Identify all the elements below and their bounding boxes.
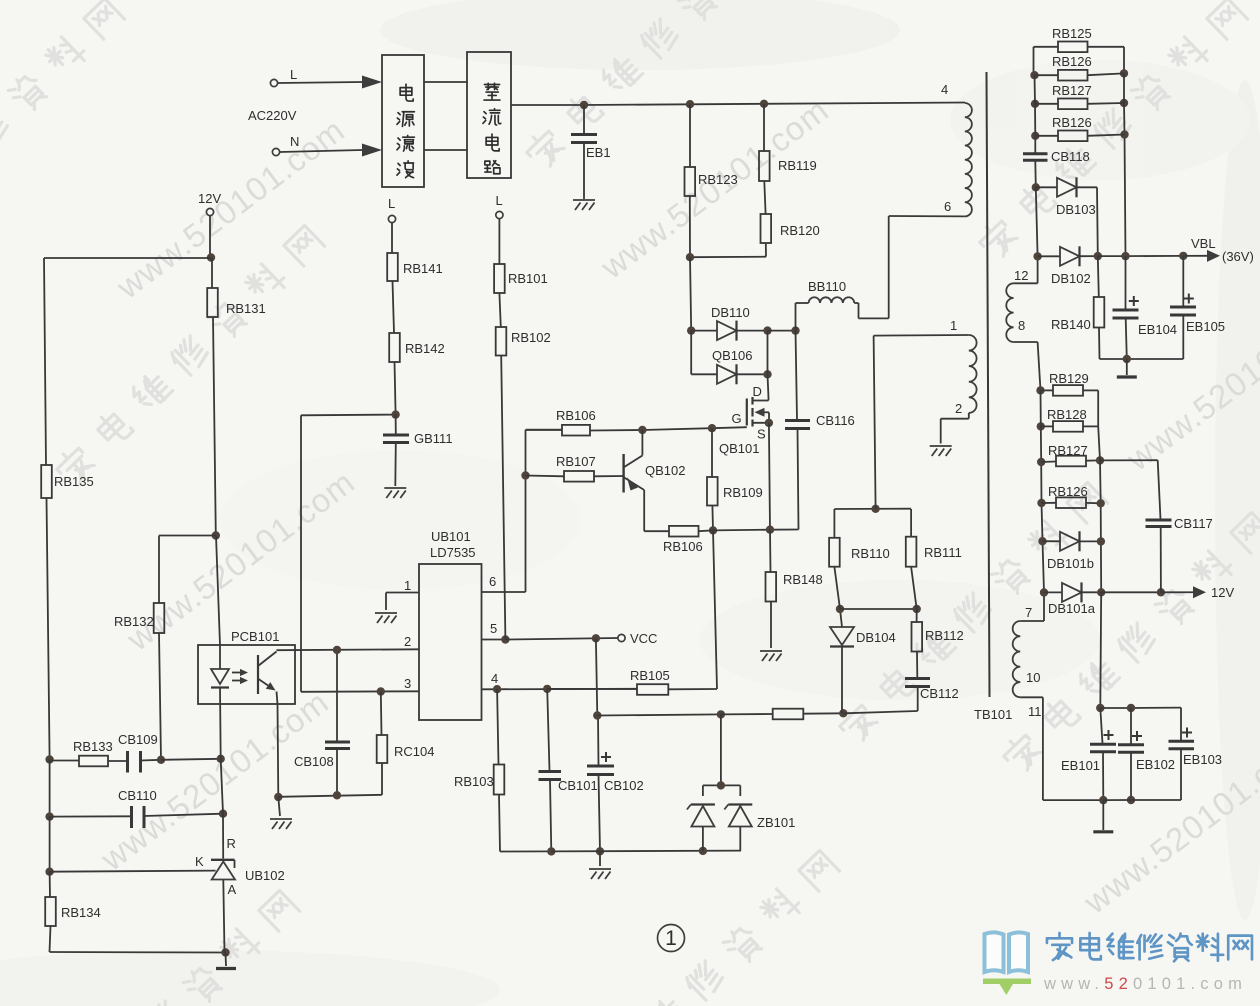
- pin 3 wire: [301, 690, 419, 693]
- node RB119 top: [760, 100, 768, 108]
- node DB102 anode: [1033, 252, 1041, 260]
- watermark text line: [52, 223, 326, 489]
- svg-text:6: 6: [489, 574, 496, 589]
- resistor RB128: [1041, 425, 1053, 427]
- wire left rail upper: [44, 258, 46, 465]
- node EB105 top: [1179, 252, 1187, 260]
- svg-text:RB111: RB111: [924, 545, 962, 560]
- transistor QB102: [622, 454, 624, 493]
- node EB101 top: [1096, 704, 1104, 712]
- ground RB148: [760, 651, 782, 661]
- node opto rail upper: [217, 755, 225, 763]
- svg-text:RB125: RB125: [1052, 26, 1092, 41]
- logo site name: [1047, 933, 1072, 960]
- ground winding2: [930, 446, 952, 456]
- wire filter-rectifier top: [424, 81, 467, 83]
- ground EB101: [1102, 800, 1104, 830]
- svg-text:6: 6: [944, 199, 951, 214]
- node DB110 anode: [687, 326, 695, 334]
- node RB126a R: [1120, 69, 1128, 77]
- svg-text:CB110: CB110: [118, 788, 157, 803]
- svg-text:DB101a: DB101a: [1048, 601, 1096, 616]
- capacitor EB1: [583, 105, 585, 133]
- node RB131 bottom: [212, 531, 220, 539]
- svg-text:DB110: DB110: [711, 305, 750, 320]
- resistor RB120: [764, 181, 765, 214]
- resistor RB112: [916, 609, 918, 622]
- node RB129 L: [1036, 386, 1044, 394]
- node RB133 left: [45, 755, 53, 763]
- svg-text:(36V): (36V): [1222, 249, 1254, 264]
- watermark text line: [522, 0, 796, 172]
- svg-text:RB129: RB129: [1049, 371, 1089, 386]
- svg-text:DB102: DB102: [1051, 271, 1091, 286]
- svg-text:7: 7: [1025, 605, 1032, 620]
- node pin4 CB101: [543, 685, 551, 693]
- wire to RB132: [159, 535, 216, 537]
- ground mid: [599, 851, 601, 866]
- node EB1 top: [580, 101, 588, 109]
- svg-text:RB126: RB126: [1052, 115, 1092, 130]
- node CB108 top: [333, 646, 341, 654]
- svg-text:QB102: QB102: [645, 463, 685, 478]
- node RB107 left: [521, 471, 529, 479]
- node RB126c L: [1037, 499, 1045, 507]
- svg-text:RB102: RB102: [511, 330, 551, 345]
- wire VBL: [1098, 255, 1126, 257]
- node pin5: [501, 635, 509, 643]
- resistor RB142: [389, 333, 400, 362]
- winding 7-10: [1043, 593, 1045, 622]
- svg-text:12: 12: [1014, 268, 1028, 283]
- wire D: [767, 331, 769, 375]
- node pin1 riser bottom: [871, 505, 879, 513]
- watermark text line: [27, 888, 301, 1006]
- node RB126a L: [1030, 71, 1038, 79]
- svg-text:CB116: CB116: [816, 413, 855, 428]
- winding 1-2: [874, 336, 876, 509]
- svg-text:RB132: RB132: [114, 614, 154, 629]
- zener pair ZB101: [720, 714, 722, 785]
- resistor RB103: [497, 689, 498, 764]
- svg-text:A: A: [228, 882, 237, 897]
- svg-text:RB107: RB107: [556, 454, 596, 469]
- node DB110 cathode: [763, 326, 771, 334]
- capacitor EB104: [1125, 256, 1127, 309]
- node RB127b R: [1096, 456, 1104, 464]
- node CB109-RB132: [157, 756, 165, 764]
- wire left rail lower1: [49, 760, 51, 817]
- node CB117 bottom: [1157, 588, 1165, 596]
- resistor RB126b: [1035, 135, 1058, 137]
- svg-text:RB127: RB127: [1052, 83, 1092, 98]
- node DB101a L: [1040, 588, 1048, 596]
- capacitor GB111: [395, 415, 397, 434]
- node DB103 anode: [1032, 183, 1040, 191]
- svg-text:RB148: RB148: [783, 572, 823, 587]
- logo book icon: [985, 932, 1029, 972]
- svg-text:12V: 12V: [198, 191, 221, 206]
- svg-text:VBL: VBL: [1191, 236, 1216, 251]
- capacitor EB103: [1180, 708, 1182, 741]
- svg-text:UB102: UB102: [245, 868, 285, 883]
- arrow into filter box 2: [362, 144, 382, 157]
- resistor RB148: [769, 530, 772, 572]
- resistor RB132: [154, 603, 165, 633]
- ic UB101 box: [419, 564, 482, 720]
- resistor RB141: [387, 253, 398, 281]
- terminal N: [272, 148, 279, 155]
- resistor RB107: [526, 475, 565, 478]
- mosfet QB101: [768, 398, 770, 401]
- node DB101b L: [1038, 537, 1046, 545]
- node DB104 anode: [836, 605, 844, 613]
- circled number 1: [658, 925, 685, 952]
- node DB101b R: [1097, 537, 1105, 545]
- svg-text:N: N: [290, 134, 299, 149]
- svg-text:RB126: RB126: [1052, 54, 1092, 69]
- node RB111 bottom: [913, 605, 921, 613]
- resistor RB119: [763, 104, 765, 151]
- wire RB101-RB102: [499, 293, 500, 327]
- svg-text:EB1: EB1: [586, 145, 611, 160]
- resistor RB131: [211, 258, 213, 288]
- svg-text:CB118: CB118: [1051, 149, 1090, 164]
- node EB101 bottom: [1099, 796, 1107, 804]
- wire EB top row: [1100, 707, 1131, 709]
- svg-text:UB101: UB101: [431, 529, 471, 544]
- rectifier box: [467, 52, 511, 178]
- node CB101 bottom: [547, 847, 555, 855]
- wire RB120 bottom: [765, 243, 767, 257]
- svg-text:RB120: RB120: [780, 223, 820, 238]
- wire left rail mid: [47, 498, 50, 759]
- wire left rail lower3: [49, 872, 51, 897]
- wire sense row: [699, 529, 714, 532]
- svg-text:RB126: RB126: [1048, 484, 1088, 499]
- wire RB127b to CB117: [1100, 459, 1158, 461]
- svg-text:CB101: CB101: [558, 778, 598, 793]
- node 12V rail: [1097, 588, 1105, 596]
- node vcc-sense tee: [593, 711, 601, 719]
- pin 5 wire: [482, 639, 506, 641]
- wire right rail a: [1123, 73, 1125, 103]
- arrow VBL: [1183, 255, 1207, 257]
- node CB110 left: [45, 812, 53, 820]
- svg-text:S: S: [757, 427, 766, 442]
- capacitor CB117: [1158, 460, 1161, 519]
- svg-text:RB106: RB106: [663, 539, 703, 554]
- resistor RB110: [833, 509, 835, 538]
- logo bookmark: [983, 979, 1031, 996]
- node pin4 RB103: [493, 685, 501, 693]
- wire filter-rectifier bottom: [424, 149, 467, 151]
- wire 12V to EB101: [1099, 592, 1102, 708]
- wire emitter rail: [278, 795, 382, 797]
- svg-text:12V: 12V: [1211, 585, 1234, 600]
- resistor RB127a: [1035, 103, 1058, 105]
- capacitor CB101: [547, 689, 549, 771]
- power filter box: [382, 55, 424, 187]
- watermark text line: [835, 480, 1109, 746]
- svg-text:DB101b: DB101b: [1047, 556, 1094, 571]
- svg-text:RB142: RB142: [405, 341, 445, 356]
- wire RB110 RB111 bottom: [840, 608, 917, 610]
- capacitor CB109: [126, 751, 129, 773]
- capacitor EB102: [1130, 708, 1132, 744]
- svg-text:11: 11: [1028, 704, 1042, 719]
- svg-text:RB128: RB128: [1047, 407, 1087, 422]
- diode DB102: [1038, 255, 1060, 257]
- node sense: [709, 526, 717, 534]
- svg-text:VCC: VCC: [630, 631, 657, 646]
- wire RB141-RB142: [393, 281, 395, 333]
- svg-text:1: 1: [950, 318, 957, 333]
- wire RB132 bottom: [159, 633, 161, 760]
- node RB109 top: [708, 424, 716, 432]
- svg-text:EB105: EB105: [1186, 319, 1225, 334]
- svg-text:3: 3: [404, 676, 411, 691]
- svg-text:L: L: [388, 196, 395, 211]
- wire K line: [50, 871, 216, 872]
- svg-text:RB127: RB127: [1048, 443, 1088, 458]
- resistor RB125: [1033, 47, 1035, 75]
- resistor RB140: [1098, 256, 1099, 297]
- tl431 UB102: [211, 859, 235, 861]
- node RB123 bottom: [686, 253, 694, 261]
- wire EB bottom row: [1100, 358, 1184, 360]
- ground EB104: [1126, 359, 1128, 375]
- watermark text line: [0, 0, 126, 262]
- node gnd EB104: [1123, 355, 1131, 363]
- resistor RB111: [910, 509, 912, 537]
- wire rail b: [1040, 390, 1042, 426]
- svg-text:4: 4: [491, 671, 498, 686]
- capacitor CB102: [596, 638, 597, 715]
- terminal L2: [388, 215, 395, 222]
- svg-text:AC220V: AC220V: [248, 108, 297, 123]
- watermark text line: [975, 0, 1249, 262]
- svg-text:RB134: RB134: [61, 905, 101, 920]
- node RB148 top: [766, 526, 774, 534]
- wire G: [590, 429, 642, 432]
- capacitor CB110: [50, 815, 132, 817]
- optocoupler PCB101 box: [198, 645, 295, 704]
- node RB127a L: [1031, 100, 1039, 108]
- node EB102 bottom: [1127, 796, 1135, 804]
- watermark text line: [567, 848, 841, 1006]
- wire rail a2: [1034, 75, 1037, 104]
- svg-text:CB108: CB108: [294, 754, 334, 769]
- node S: [765, 419, 773, 427]
- svg-text:DB103: DB103: [1056, 202, 1096, 217]
- wire vcc sense row: [597, 714, 721, 715]
- node CB116 top: [791, 326, 799, 334]
- pin 4 wire: [482, 688, 638, 691]
- resistor RB126c: [1042, 502, 1057, 504]
- svg-text:G: G: [732, 411, 742, 426]
- svg-text:CB102: CB102: [604, 778, 644, 793]
- resistor RB105: [547, 688, 637, 690]
- svg-text:RB140: RB140: [1051, 317, 1091, 332]
- resistor RB126a: [1035, 74, 1059, 76]
- node vcc tee: [592, 634, 600, 642]
- svg-text:ZB101: ZB101: [757, 815, 795, 830]
- svg-text:RB131: RB131: [226, 301, 266, 316]
- ground PCB101: [270, 819, 292, 829]
- node ZB101 top: [717, 710, 725, 718]
- resistor RB123: [689, 104, 691, 167]
- ground GB111: [384, 488, 406, 498]
- svg-text:LD7535: LD7535: [430, 545, 476, 560]
- capacitor EB105: [1182, 256, 1184, 306]
- wire CB109 right: [141, 759, 162, 762]
- wire RB133-CB109: [108, 760, 127, 762]
- ground pin1: [375, 613, 397, 623]
- svg-text:K: K: [195, 854, 204, 869]
- wire RB110 top: [834, 508, 911, 510]
- node DB104 bottom: [839, 709, 847, 717]
- svg-text:RC104: RC104: [394, 744, 434, 759]
- arrow 12V: [1161, 591, 1193, 593]
- svg-text:CB112: CB112: [920, 686, 959, 701]
- wire CB109 node to rail: [161, 759, 221, 760]
- svg-text:RB112: RB112: [925, 628, 964, 643]
- node CB110 right: [219, 810, 227, 818]
- wire 12V to left rail: [44, 257, 211, 259]
- node RB126b L: [1031, 132, 1039, 140]
- node GB111: [391, 410, 399, 418]
- opto LED: [219, 688, 222, 759]
- node RB123 top: [686, 100, 694, 108]
- arrow into filter box: [362, 76, 382, 89]
- svg-text:2: 2: [955, 401, 962, 416]
- wire rectifier output rail: [511, 104, 584, 106]
- wire opto emitter ground: [278, 797, 280, 816]
- node ZB101 bottom left: [699, 847, 707, 855]
- capacitor CB116: [796, 331, 798, 420]
- svg-text:RB133: RB133: [73, 739, 113, 754]
- node K wire left: [45, 868, 53, 876]
- terminal L3: [496, 211, 503, 218]
- svg-text:L: L: [496, 193, 503, 208]
- terminal 12V: [206, 208, 213, 215]
- node CB108 bottom: [333, 791, 341, 799]
- wire RB134 to bottom: [50, 926, 51, 952]
- pin 6 wire: [482, 591, 526, 593]
- svg-text:CB117: CB117: [1174, 516, 1213, 531]
- winding 12-8: [1037, 256, 1039, 283]
- wire RB142 down: [395, 362, 396, 414]
- svg-text:QB101: QB101: [719, 441, 759, 456]
- winding 4-6 primary: [965, 103, 972, 216]
- svg-text:2: 2: [404, 634, 411, 649]
- node bottom UB102: [221, 948, 229, 956]
- wire right rail b: [1098, 426, 1100, 460]
- svg-text:DB104: DB104: [856, 630, 896, 645]
- svg-text:RB141: RB141: [403, 261, 443, 276]
- resistor RC104: [380, 692, 383, 736]
- diode DB110: [691, 330, 717, 332]
- resistor RB106a: [526, 429, 563, 431]
- capacitor EB101: [1100, 708, 1102, 744]
- wire sense to RB105: [713, 530, 717, 689]
- svg-text:EB103: EB103: [1183, 752, 1222, 767]
- wire pin5 vcc: [505, 638, 617, 640]
- ground EB1: [573, 200, 595, 210]
- resistor RB109: [711, 428, 713, 477]
- resistor RB127b: [1041, 461, 1056, 464]
- watermark text line: [999, 510, 1260, 776]
- svg-text:CB109: CB109: [118, 732, 158, 747]
- svg-text:www.520101.com: www.520101.com: [1043, 975, 1247, 993]
- svg-text:RB110: RB110: [851, 546, 890, 561]
- wire to QB106: [690, 331, 692, 375]
- resistor RB101: [494, 264, 505, 293]
- node 12V: [207, 253, 215, 261]
- node QB106 cathode: [763, 370, 771, 378]
- svg-text:D: D: [753, 384, 762, 399]
- diode QB106: [691, 373, 717, 375]
- wire left rail lower2: [49, 817, 51, 872]
- svg-text:RB105: RB105: [630, 668, 670, 683]
- svg-text:5: 5: [490, 621, 497, 636]
- svg-text:RB119: RB119: [778, 158, 817, 173]
- capacitor CB118: [1023, 152, 1048, 155]
- diode DB104: [841, 648, 843, 714]
- node RC104 top: [377, 687, 385, 695]
- svg-text:RB135: RB135: [54, 474, 94, 489]
- terminal L: [270, 79, 277, 86]
- ground bar UB102: [216, 967, 236, 970]
- opto transistor: [257, 655, 259, 694]
- node RB127b L: [1037, 458, 1045, 466]
- resistor RB106b: [644, 530, 669, 532]
- pin 1 wire: [386, 592, 419, 594]
- svg-text:8: 8: [1018, 318, 1025, 333]
- svg-text:EB101: EB101: [1061, 758, 1100, 773]
- wire R pin UB102: [221, 759, 223, 814]
- wire to CB112: [843, 711, 917, 713]
- wire rail to DB102: [1036, 187, 1038, 256]
- wire rail to DB110: [690, 257, 691, 330]
- node RB126c R: [1097, 499, 1105, 507]
- svg-text:RB106: RB106: [556, 408, 596, 423]
- node RB140 top: [1094, 252, 1102, 260]
- svg-text:BB110: BB110: [808, 279, 846, 294]
- svg-text:EB104: EB104: [1138, 322, 1177, 337]
- opto LED arrows: [232, 672, 240, 674]
- diode DB103: [1036, 186, 1057, 188]
- capacitor CB108: [336, 650, 338, 742]
- node RB128 L: [1037, 422, 1045, 430]
- capacitor CB112: [905, 677, 930, 680]
- node CB102 bottom: [596, 847, 604, 855]
- svg-text:RB123: RB123: [698, 172, 738, 187]
- svg-text:GB111: GB111: [414, 431, 453, 446]
- wire DB110 to BB110 node: [768, 330, 796, 332]
- diode DB101a: [1044, 591, 1062, 593]
- svg-text:1: 1: [404, 578, 411, 593]
- svg-text:QB106: QB106: [712, 348, 752, 363]
- svg-text:PCB101: PCB101: [231, 629, 279, 644]
- node ZB101 mid: [717, 781, 725, 789]
- pin 2 wire: [277, 648, 420, 651]
- node opto emitter: [274, 793, 282, 801]
- svg-text:EB102: EB102: [1136, 757, 1175, 772]
- svg-text:TB101: TB101: [974, 707, 1012, 722]
- wire EB bottom: [1103, 799, 1131, 801]
